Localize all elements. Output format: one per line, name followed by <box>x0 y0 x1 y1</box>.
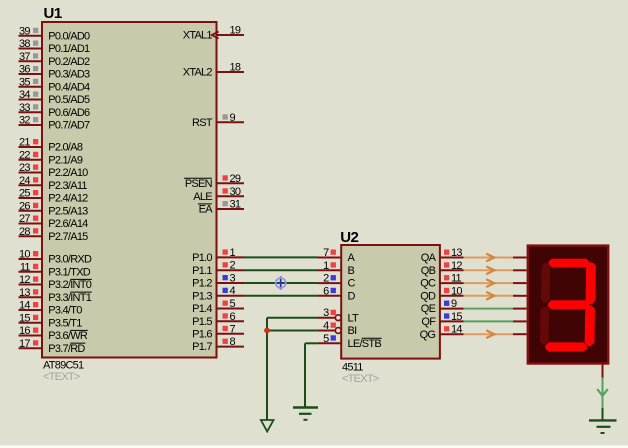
svg-text:QG: QG <box>420 329 436 341</box>
svg-text:34: 34 <box>19 89 30 101</box>
svg-text:6: 6 <box>230 311 236 323</box>
svg-text:P2.3/A11: P2.3/A11 <box>48 180 87 192</box>
svg-text:37: 37 <box>19 51 30 63</box>
svg-text:P1.2: P1.2 <box>192 278 212 290</box>
svg-text:QF: QF <box>421 316 436 328</box>
svg-text:P0.3/AD3: P0.3/AD3 <box>48 69 90 81</box>
svg-text:P0.0/AD0: P0.0/AD0 <box>48 30 90 42</box>
svg-text:18: 18 <box>230 62 241 74</box>
svg-text:P3.3/INT1: P3.3/INT1 <box>48 292 91 304</box>
svg-text:6: 6 <box>323 285 329 297</box>
svg-text:P0.1/AD1: P0.1/AD1 <box>48 43 90 55</box>
svg-text:P3.7/RD: P3.7/RD <box>48 343 85 355</box>
svg-text:PSEN: PSEN <box>185 178 213 190</box>
svg-text:5: 5 <box>323 333 329 345</box>
svg-text:1: 1 <box>230 247 236 259</box>
svg-text:P0.4/AD4: P0.4/AD4 <box>48 81 90 93</box>
svg-text:12: 12 <box>19 274 30 286</box>
svg-text:P2.1/A9: P2.1/A9 <box>48 154 83 166</box>
svg-text:P1.1: P1.1 <box>192 265 212 277</box>
svg-text:19: 19 <box>230 25 241 37</box>
svg-text:31: 31 <box>230 199 241 211</box>
svg-text:33: 33 <box>19 102 30 114</box>
svg-text:5: 5 <box>230 298 236 310</box>
svg-text:32: 32 <box>19 115 30 127</box>
svg-text:P0.7/AD7: P0.7/AD7 <box>48 120 90 132</box>
svg-text:3: 3 <box>323 307 329 319</box>
svg-text:<TEXT>: <TEXT> <box>342 373 379 385</box>
svg-text:35: 35 <box>19 76 30 88</box>
svg-text:ALE: ALE <box>193 191 212 203</box>
svg-text:P2.6/A14: P2.6/A14 <box>48 218 88 230</box>
svg-text:P2.0/A8: P2.0/A8 <box>48 142 83 154</box>
svg-text:QC: QC <box>420 278 436 290</box>
svg-text:13: 13 <box>19 287 30 299</box>
svg-text:P1.7: P1.7 <box>192 341 212 353</box>
svg-text:38: 38 <box>19 38 30 50</box>
svg-text:P1.4: P1.4 <box>192 303 212 315</box>
svg-text:U1: U1 <box>44 5 62 22</box>
svg-text:4: 4 <box>323 320 329 332</box>
svg-text:12: 12 <box>451 260 462 272</box>
svg-text:15: 15 <box>19 312 30 324</box>
svg-text:AT89C51: AT89C51 <box>43 359 84 371</box>
svg-text:P2.4/A12: P2.4/A12 <box>48 193 88 205</box>
svg-text:39: 39 <box>19 25 30 37</box>
svg-text:3: 3 <box>230 273 236 285</box>
svg-text:15: 15 <box>451 311 462 323</box>
svg-text:P3.2/INT0: P3.2/INT0 <box>48 279 91 291</box>
svg-text:P3.0/RXD: P3.0/RXD <box>48 254 92 266</box>
svg-text:2: 2 <box>323 273 329 285</box>
svg-text:10: 10 <box>451 285 462 297</box>
svg-text:23: 23 <box>19 162 30 174</box>
svg-text:P0.2/AD2: P0.2/AD2 <box>48 56 90 68</box>
svg-text:P0.6/AD6: P0.6/AD6 <box>48 107 90 119</box>
svg-text:P2.7/A15: P2.7/A15 <box>48 231 88 243</box>
svg-text:8: 8 <box>230 336 236 348</box>
svg-text:14: 14 <box>451 324 462 336</box>
svg-text:4511: 4511 <box>342 361 363 373</box>
svg-text:27: 27 <box>19 213 30 225</box>
svg-text:26: 26 <box>19 200 30 212</box>
svg-text:24: 24 <box>19 175 30 187</box>
svg-text:C: C <box>348 278 356 290</box>
svg-text:LT: LT <box>348 312 360 324</box>
svg-text:RST: RST <box>192 117 213 129</box>
svg-text:11: 11 <box>451 273 462 285</box>
svg-text:BI: BI <box>348 325 358 337</box>
svg-text:7: 7 <box>230 323 236 335</box>
svg-text:36: 36 <box>19 64 30 76</box>
svg-text:XTAL1: XTAL1 <box>183 30 213 42</box>
svg-text:10: 10 <box>19 249 30 261</box>
svg-text:25: 25 <box>19 188 30 200</box>
svg-text:QA: QA <box>421 252 437 264</box>
svg-text:P3.4/T0: P3.4/T0 <box>48 305 82 317</box>
svg-text:9: 9 <box>230 112 236 124</box>
svg-text:P2.5/A13: P2.5/A13 <box>48 205 88 217</box>
svg-text:<TEXT>: <TEXT> <box>43 371 80 383</box>
svg-text:P1.5: P1.5 <box>192 316 212 328</box>
svg-text:28: 28 <box>19 226 30 238</box>
svg-text:LE/STB: LE/STB <box>348 338 382 350</box>
svg-text:11: 11 <box>20 261 31 273</box>
svg-text:P0.5/AD5: P0.5/AD5 <box>48 94 90 106</box>
svg-text:21: 21 <box>19 137 30 149</box>
svg-text:P1.6: P1.6 <box>192 328 212 340</box>
svg-text:QB: QB <box>421 265 436 277</box>
svg-text:16: 16 <box>19 325 30 337</box>
svg-text:17: 17 <box>19 338 30 350</box>
svg-text:D: D <box>348 290 356 302</box>
svg-text:B: B <box>348 265 355 277</box>
svg-text:22: 22 <box>19 149 30 161</box>
svg-text:4: 4 <box>230 285 236 297</box>
svg-text:EA: EA <box>199 204 214 216</box>
svg-text:1: 1 <box>323 260 329 272</box>
svg-text:P2.2/A10: P2.2/A10 <box>48 167 88 179</box>
svg-text:2: 2 <box>230 260 236 272</box>
svg-text:P1.0: P1.0 <box>192 252 212 264</box>
svg-text:29: 29 <box>230 173 241 185</box>
svg-text:XTAL2: XTAL2 <box>183 67 213 79</box>
svg-text:P1.3: P1.3 <box>192 290 212 302</box>
svg-text:U2: U2 <box>340 229 358 246</box>
svg-text:9: 9 <box>451 298 457 310</box>
svg-text:14: 14 <box>19 300 30 312</box>
svg-text:P3.5/T1: P3.5/T1 <box>48 317 82 329</box>
svg-text:P3.1/TXD: P3.1/TXD <box>48 266 90 278</box>
svg-text:QD: QD <box>420 290 436 302</box>
svg-text:30: 30 <box>230 186 241 198</box>
svg-text:7: 7 <box>323 247 329 259</box>
svg-text:13: 13 <box>451 247 462 259</box>
svg-text:P3.6/WR: P3.6/WR <box>48 330 88 342</box>
svg-text:QE: QE <box>421 303 436 315</box>
